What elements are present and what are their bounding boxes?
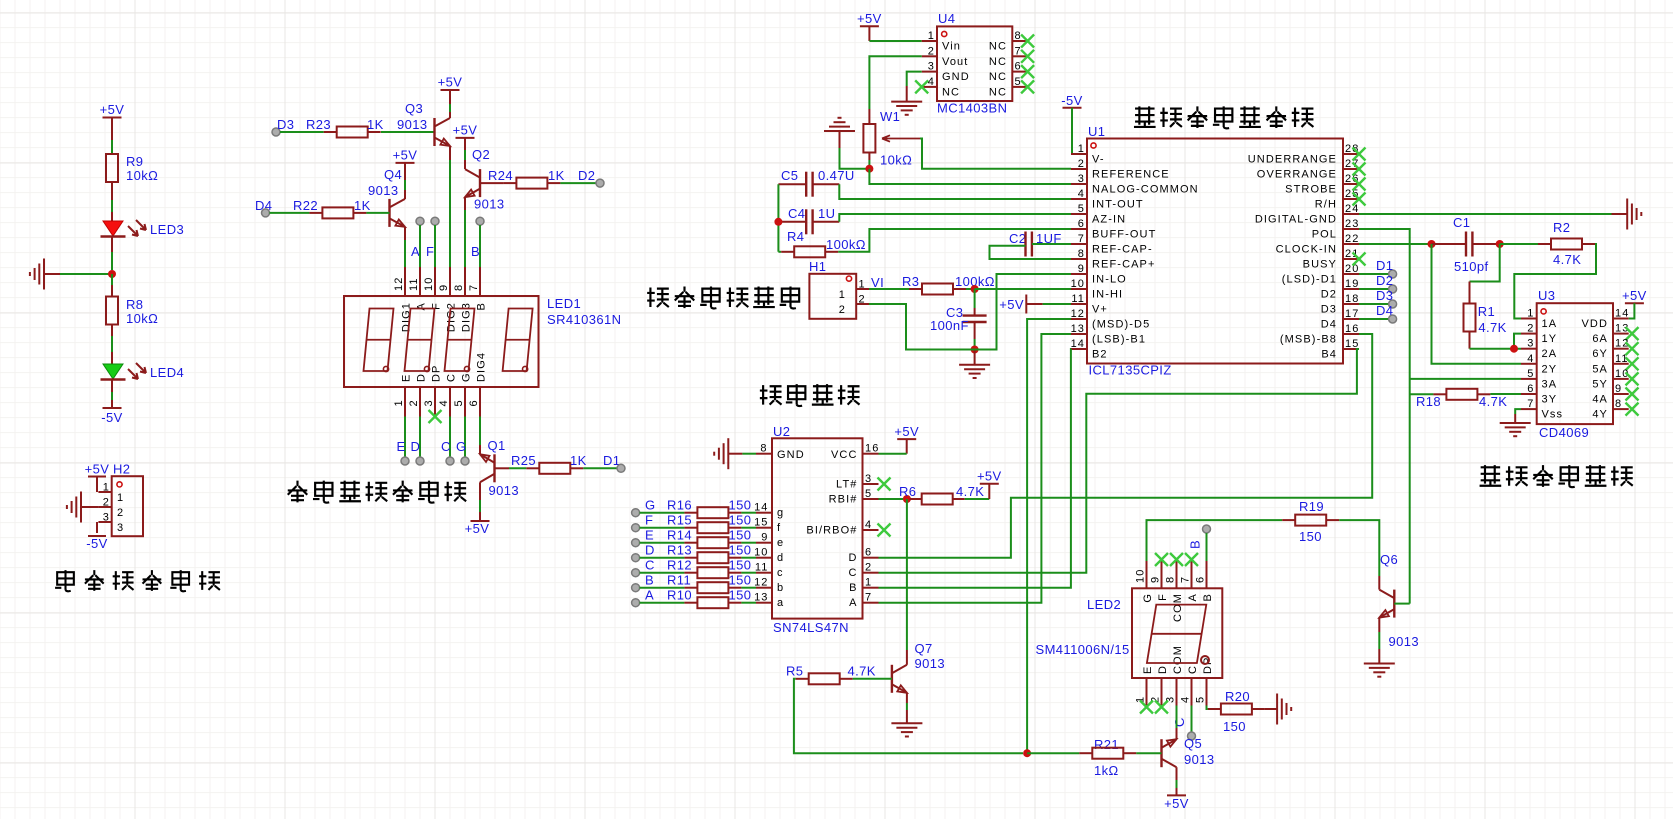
svg-text:NC: NC <box>989 41 1007 53</box>
U3 pin 8 (4Y) <box>1613 408 1629 410</box>
svg-text:9013: 9013 <box>1184 752 1215 767</box>
svg-text:B4: B4 <box>1321 349 1337 361</box>
svg-text:8: 8 <box>1078 248 1085 260</box>
U1 pin 6 (BUFF-OUT) <box>1071 228 1087 230</box>
U1 pin 8 (REF-CAP+) <box>1071 258 1087 260</box>
svg-text:D2: D2 <box>1376 273 1393 288</box>
svg-text:R19: R19 <box>1299 499 1324 514</box>
U4 pin 1 (Vin) <box>922 40 937 42</box>
wire LED1 pin5 G to port <box>464 417 466 458</box>
U2 pin 5 (RBI#) <box>863 498 879 500</box>
svg-text:1: 1 <box>1078 143 1085 155</box>
wire A to R10 <box>640 602 685 604</box>
net port D4 <box>262 209 270 217</box>
svg-text:D4: D4 <box>255 198 272 213</box>
svg-text:150: 150 <box>729 558 752 573</box>
svg-text:4.7K: 4.7K <box>1478 320 1506 335</box>
svg-text:14: 14 <box>1615 308 1629 320</box>
no-connect X on U1 right pin <box>1353 253 1366 266</box>
LED1 pin 11 (A) top <box>419 267 421 296</box>
svg-text:2: 2 <box>928 45 935 57</box>
svg-text:D: D <box>416 373 428 382</box>
wire U3 pin7 Vss to ground <box>1515 409 1521 414</box>
svg-text:23: 23 <box>1345 218 1359 230</box>
svg-text:IN-HI: IN-HI <box>1092 289 1123 301</box>
wire R5 left down to long rail <box>794 679 1023 753</box>
svg-text:F: F <box>645 513 653 528</box>
svg-text:MC1403BN: MC1403BN <box>937 101 1007 116</box>
svg-text:1: 1 <box>1527 308 1534 320</box>
U1 pin 12 ((MSD)-D5) <box>1071 318 1087 320</box>
svg-text:C: C <box>848 567 857 579</box>
net port B <box>476 217 484 225</box>
svg-text:5: 5 <box>1078 203 1085 215</box>
svg-text:6: 6 <box>1527 383 1534 395</box>
svg-text:3: 3 <box>117 522 124 534</box>
no-connect X on U3 pin 11 <box>1626 357 1639 370</box>
svg-text:Q2: Q2 <box>472 147 490 162</box>
no-connect X on U2 LT# <box>878 478 891 491</box>
svg-text:G: G <box>645 498 656 513</box>
LED1 pin 5 (G) bottom <box>464 387 466 417</box>
net port B (decoder input) <box>632 584 640 592</box>
wire H1 pin1 to R3 <box>869 288 909 290</box>
svg-text:100kΩ: 100kΩ <box>826 237 866 252</box>
net port D (decoder input) <box>632 554 640 562</box>
svg-text:G: G <box>456 439 467 454</box>
svg-text:G: G <box>461 372 473 382</box>
U1 pin 20 ((LSD)-D1) <box>1343 273 1359 275</box>
svg-text:W1: W1 <box>880 109 900 124</box>
svg-text:G: G <box>1142 593 1154 603</box>
svg-text:10: 10 <box>754 547 768 559</box>
wire Q5 collector to +5V <box>1176 767 1178 780</box>
svg-text:NALOG-COMMON: NALOG-COMMON <box>1092 184 1199 196</box>
net port D3 (U1 digit outputs) <box>1359 303 1389 305</box>
svg-text:7: 7 <box>1527 398 1534 410</box>
svg-text:A: A <box>849 597 857 609</box>
svg-text:D: D <box>848 552 857 564</box>
wire R10 to U2 <box>741 602 756 604</box>
no-connect X on U1 right pin <box>1353 148 1366 161</box>
svg-text:R6: R6 <box>899 484 916 499</box>
net port D <box>416 457 424 465</box>
svg-text:NC: NC <box>989 71 1007 83</box>
wire +5V to Q4 collector <box>404 163 406 180</box>
wire LED4 to -5V <box>111 380 113 393</box>
section title: shuang-ji-fen-dian-ya-cai-ji (dual-slope voltage acquisition) <box>1134 106 1156 127</box>
svg-text:(LSB)-B1: (LSB)-B1 <box>1092 334 1146 346</box>
svg-text:U4: U4 <box>938 11 955 26</box>
svg-text:-5V: -5V <box>1061 93 1082 108</box>
no-connect X on LED2 pins 1,2 <box>1140 701 1153 714</box>
svg-text:d: d <box>777 552 784 564</box>
svg-text:7: 7 <box>468 284 480 291</box>
svg-text:R20: R20 <box>1225 689 1250 704</box>
wire C2 right to U1 pin7 REF-CAP- <box>1032 243 1071 245</box>
svg-text:12: 12 <box>393 277 405 291</box>
svg-text:2Y: 2Y <box>1542 363 1558 375</box>
svg-text:12: 12 <box>754 577 768 589</box>
svg-text:A: A <box>411 244 420 259</box>
svg-text:B: B <box>471 244 480 259</box>
wire C5 right to U1 pin4 INT-OUT <box>839 184 1071 199</box>
svg-text:4.7K: 4.7K <box>848 664 876 679</box>
wire node to U1 pin3 ANALOG-COMMON <box>869 169 1071 184</box>
svg-text:D: D <box>1157 665 1169 674</box>
wire D3 to R23 <box>280 131 324 133</box>
svg-text:8: 8 <box>1165 576 1177 583</box>
svg-text:5: 5 <box>1015 76 1022 88</box>
svg-text:18: 18 <box>1345 293 1359 305</box>
LED1 digit 4 <box>503 309 533 372</box>
svg-text:V+: V+ <box>1092 304 1108 316</box>
svg-text:10: 10 <box>423 277 435 291</box>
wire C4 right to U1 pin5 AZ-IN <box>839 214 1071 222</box>
svg-text:1: 1 <box>859 279 866 291</box>
wire +5V to U1 pin11 <box>1043 303 1071 305</box>
svg-text:9013: 9013 <box>474 197 505 212</box>
svg-text:9: 9 <box>1078 263 1085 275</box>
svg-text:C1: C1 <box>1453 215 1470 230</box>
svg-text:0.47U: 0.47U <box>818 168 855 183</box>
ground (Q7 emitter) <box>891 722 922 724</box>
svg-text:D2: D2 <box>1321 289 1337 301</box>
svg-text:a: a <box>777 597 784 609</box>
LED1 digit 1 <box>364 309 394 372</box>
LED2 pin 1 (E) bottom <box>1146 678 1148 706</box>
svg-text:150: 150 <box>1223 719 1246 734</box>
net port D3 <box>272 128 280 136</box>
wire -5V to U1 pin1 <box>1071 108 1072 154</box>
net port G (decoder input) <box>632 509 640 517</box>
svg-text:LED3: LED3 <box>150 222 184 237</box>
wire Q2 base to R24 <box>480 182 503 184</box>
svg-text:+5V: +5V <box>1622 288 1647 303</box>
svg-text:3: 3 <box>423 399 435 406</box>
power rail +5V (Q1, inverted) <box>471 520 490 522</box>
svg-text:11: 11 <box>408 277 420 291</box>
svg-text:R8: R8 <box>126 297 143 312</box>
svg-text:LED1: LED1 <box>547 296 581 311</box>
svg-text:DIG4: DIG4 <box>476 352 488 382</box>
U1 pin 9 (IN-LO) <box>1071 273 1087 275</box>
svg-text:1K: 1K <box>548 168 565 183</box>
wire U4 GND to ground <box>907 72 922 86</box>
svg-text:ICL7135CPIZ: ICL7135CPIZ <box>1089 363 1172 378</box>
junction RBI#/R6/Q7 <box>903 495 911 503</box>
wire node to H1 pin2 <box>869 304 975 350</box>
svg-text:+5V: +5V <box>999 297 1024 312</box>
svg-text:5: 5 <box>865 488 872 500</box>
svg-text:6A: 6A <box>1592 333 1608 345</box>
U3 pin 7 (Vss) <box>1521 408 1537 410</box>
wire W1 wiper to U1 pin2 REFERENCE <box>920 139 1071 169</box>
svg-text:4: 4 <box>1078 188 1085 200</box>
U1 pin 26 (STROBE) <box>1343 183 1359 185</box>
svg-text:15: 15 <box>754 517 768 529</box>
svg-text:DIGITAL-GND: DIGITAL-GND <box>1255 214 1337 226</box>
svg-text:5Y: 5Y <box>1592 378 1608 390</box>
svg-text:150: 150 <box>729 498 752 513</box>
svg-text:STROBE: STROBE <box>1285 184 1337 196</box>
LED2 pin 7 (A) top <box>1191 561 1193 588</box>
wire POL branch to U3 pin5 3A <box>1410 378 1521 380</box>
svg-text:7: 7 <box>865 592 872 604</box>
svg-text:2: 2 <box>859 294 866 306</box>
svg-text:GND: GND <box>942 71 970 83</box>
svg-text:(MSD)-D5: (MSD)-D5 <box>1092 319 1150 331</box>
svg-text:COM: COM <box>1172 593 1184 622</box>
svg-text:9013: 9013 <box>1389 634 1420 649</box>
wire POL branch to R18 <box>1410 393 1434 395</box>
svg-text:2: 2 <box>1527 323 1534 335</box>
wire C to R12 <box>640 572 685 574</box>
svg-text:OVERRANGE: OVERRANGE <box>1257 169 1337 181</box>
wire B to LED1 pin7 <box>479 225 481 267</box>
svg-text:9: 9 <box>1150 576 1162 583</box>
svg-text:C: C <box>1187 665 1199 674</box>
wire R6 to +5V <box>965 498 990 500</box>
wire R25 to D1 <box>583 467 617 469</box>
svg-text:F: F <box>426 244 434 259</box>
svg-text:2: 2 <box>1078 158 1085 170</box>
wire R4 right to U1 pin6 BUFF-OUT <box>838 229 1071 252</box>
wire U1 pin23 POL net <box>1359 229 1410 604</box>
svg-text:150: 150 <box>729 513 752 528</box>
net port A <box>416 217 424 225</box>
no-connect X on U3 pin 13 <box>1626 327 1639 340</box>
4-digit 7-seg display LED1 SR410361N <box>344 296 539 387</box>
section title: yi-ma-dian-lu (decoder circuit) <box>760 385 782 404</box>
U1 pin 18 (D3) <box>1343 303 1359 305</box>
svg-text:DIG2: DIG2 <box>446 302 458 332</box>
junction C3 bottom <box>971 346 979 354</box>
H2 pin 3 <box>98 521 111 523</box>
svg-text:R11: R11 <box>667 573 691 588</box>
svg-text:2: 2 <box>839 304 846 316</box>
wire R12 to U2 <box>741 572 756 574</box>
LED2 pin 5 (DP) bottom <box>1206 678 1208 706</box>
wire U1 pin14 B2 to decoder B <box>879 349 1072 588</box>
svg-text:D1: D1 <box>1376 258 1393 273</box>
wire G to R16 <box>640 512 685 514</box>
svg-text:R12: R12 <box>667 558 692 573</box>
svg-text:5: 5 <box>1195 696 1207 703</box>
wire R9 to LED3 <box>111 182 113 200</box>
svg-text:10kΩ: 10kΩ <box>126 168 158 183</box>
svg-text:+5V: +5V <box>438 75 463 90</box>
wire R24 to D2 <box>560 182 599 184</box>
LED2 pin 8 (COM) top <box>1176 561 1178 588</box>
U2 pin 9 (e) <box>756 542 772 544</box>
junction R21 node <box>1023 749 1031 757</box>
svg-text:4A: 4A <box>1592 394 1608 406</box>
svg-text:150: 150 <box>729 543 752 558</box>
ground (left of node) <box>43 259 45 290</box>
svg-text:R/H: R/H <box>1315 199 1337 211</box>
svg-text:Q5: Q5 <box>1184 736 1202 751</box>
LED1 pin 12 (DIG1) top <box>404 267 406 296</box>
svg-text:H1: H1 <box>809 259 826 274</box>
svg-text:R13: R13 <box>667 543 692 558</box>
U3 pin 3 (2A) <box>1521 348 1537 350</box>
U2 pin 14 (g) <box>756 512 772 514</box>
svg-text:1: 1 <box>393 399 405 406</box>
svg-text:8: 8 <box>1015 30 1022 42</box>
resistor R9 10k <box>111 153 113 155</box>
svg-text:C: C <box>645 558 655 573</box>
svg-text:R5: R5 <box>786 664 803 679</box>
svg-text:4.7K: 4.7K <box>956 484 984 499</box>
wire D4 to R22 <box>270 212 310 214</box>
svg-text:B: B <box>849 582 857 594</box>
svg-text:A: A <box>1187 593 1199 601</box>
U1 pin 25 (R/H) <box>1343 198 1359 200</box>
wire node down to C3 <box>974 289 976 308</box>
svg-text:INT-OUT: INT-OUT <box>1092 199 1144 211</box>
junction C4 left <box>774 218 782 226</box>
svg-text:1K: 1K <box>354 198 371 213</box>
U1 pin 27 (OVERRANGE) <box>1343 168 1359 170</box>
wire +5V to R9 <box>111 118 113 141</box>
svg-text:R15: R15 <box>667 513 692 528</box>
no-connect X on U1 right pin <box>1353 178 1366 191</box>
svg-text:C: C <box>446 373 458 382</box>
LED1 pin 8 (DIG3) top <box>464 267 466 296</box>
wire A to LED1 pin11 <box>419 225 421 267</box>
svg-text:C4: C4 <box>788 206 805 221</box>
wire D to R13 <box>640 557 685 559</box>
svg-text:5: 5 <box>453 399 465 406</box>
no-connect X on U1 right pin <box>1353 163 1366 176</box>
svg-text:1kΩ: 1kΩ <box>1094 763 1119 778</box>
U1 pin 10 (IN-HI) <box>1071 288 1087 290</box>
svg-text:1: 1 <box>928 30 935 42</box>
LED1 pin 1 (E) bottom <box>404 387 406 417</box>
wire U1 pin16 MSB-B8 to decoder D <box>879 334 1373 558</box>
svg-text:NC: NC <box>989 56 1007 68</box>
svg-text:F: F <box>1157 593 1169 601</box>
U3 pin 9 (4A) <box>1613 393 1629 395</box>
svg-text:7: 7 <box>1015 45 1022 57</box>
svg-text:150: 150 <box>729 573 752 588</box>
svg-text:B: B <box>1202 593 1214 601</box>
svg-text:1K: 1K <box>570 453 587 468</box>
svg-text:1: 1 <box>865 577 872 589</box>
wire +5V to Q2 collector <box>464 138 466 150</box>
LED1 pin 9 (DIG2) top <box>449 267 451 296</box>
svg-text:B: B <box>476 302 488 310</box>
svg-text:+5V: +5V <box>100 102 125 117</box>
svg-text:2: 2 <box>865 562 872 574</box>
svg-text:1U: 1U <box>818 206 835 221</box>
svg-text:9013: 9013 <box>915 656 946 671</box>
svg-text:RBI#: RBI# <box>829 494 858 506</box>
svg-text:D: D <box>411 439 421 454</box>
svg-text:2A: 2A <box>1542 348 1558 360</box>
H2 pin 1 <box>98 491 111 493</box>
svg-text:U3: U3 <box>1538 288 1555 303</box>
no-connect X on LED2 pins 9,8,7 <box>1155 553 1168 566</box>
svg-text:POL: POL <box>1312 229 1337 241</box>
net port A (decoder input) <box>632 599 640 607</box>
wire R2 right loop to U3 pin1 1A <box>1514 244 1596 319</box>
svg-text:13: 13 <box>754 592 768 604</box>
net port C <box>446 457 454 465</box>
U1 pin 1 (V-) <box>1071 153 1087 155</box>
wire R19 to Q6 collector <box>1339 520 1379 576</box>
LED2 digit <box>1147 605 1206 663</box>
no-connect X on U4 pin 7 <box>1021 50 1034 63</box>
svg-text:(MSB)-B8: (MSB)-B8 <box>1280 334 1337 346</box>
U1 pin 5 (AZ-IN) <box>1071 213 1087 215</box>
LED2 pin 10 (G) top <box>1146 561 1148 588</box>
wire R18 right to U3 pin6 3Y <box>1490 393 1521 395</box>
U2 pin 8 (GND) <box>756 453 772 455</box>
wire U1 pin15 B4 to decoder C <box>879 349 1360 573</box>
wire W1 bottom <box>868 153 870 161</box>
wire Q2 emitter to LED1 pin8 <box>464 197 466 210</box>
svg-text:7: 7 <box>1180 576 1192 583</box>
svg-text:14: 14 <box>754 502 768 514</box>
svg-text:Q4: Q4 <box>384 167 402 182</box>
svg-text:REF-CAP-: REF-CAP- <box>1092 244 1153 256</box>
svg-text:1A: 1A <box>1542 318 1558 330</box>
LED2 pin 9 (F) top <box>1161 561 1163 588</box>
svg-text:9: 9 <box>438 284 450 291</box>
svg-text:12: 12 <box>1071 308 1085 320</box>
junction C1 right <box>1496 240 1504 248</box>
no-connect X on U3 pin 10 <box>1626 372 1639 385</box>
no-connect X on U4 pin 5 <box>1021 80 1034 93</box>
svg-text:R3: R3 <box>902 274 919 289</box>
svg-text:E: E <box>401 374 413 382</box>
svg-text:R1: R1 <box>1478 304 1495 319</box>
net port F (decoder input) <box>632 524 640 532</box>
svg-text:4: 4 <box>928 76 935 88</box>
svg-text:DP: DP <box>431 365 443 382</box>
U1 pin 3 (NALOG-COMMON) <box>1071 183 1087 185</box>
svg-text:V-: V- <box>1092 154 1105 166</box>
U4 pin 4 (NC) <box>922 86 937 88</box>
wire C1 right to R2 <box>1500 243 1538 245</box>
U1 pin 21 (BUSY) <box>1343 258 1359 260</box>
svg-text:SM411006N/15: SM411006N/15 <box>1036 642 1130 657</box>
no-connect X on U4 pin 8 <box>1021 35 1034 48</box>
svg-text:4: 4 <box>1527 353 1534 365</box>
U2 pin 13 (a) <box>756 602 772 604</box>
wire C3 bottom node <box>974 339 976 350</box>
U3 pin 5 (3A) <box>1521 378 1537 380</box>
wire Q1 collector to +5V <box>479 482 481 500</box>
wire node to R8 <box>111 274 113 285</box>
svg-text:B: B <box>1188 540 1203 549</box>
U4 pin 8 (NC) <box>1012 40 1027 42</box>
svg-text:14: 14 <box>1071 338 1085 350</box>
U1 pin 11 (V+) <box>1071 303 1087 305</box>
inverted ground (W1 bottom net) <box>824 130 855 132</box>
svg-text:GND: GND <box>777 449 805 461</box>
U1 pin 7 (REF-CAP-) <box>1071 243 1087 245</box>
svg-text:+5V: +5V <box>85 462 110 477</box>
U3 pin 11 (5A) <box>1613 363 1629 365</box>
no-connect X on U2 BI/RBO# <box>878 524 891 537</box>
U2 pin 6 (D) <box>863 557 879 559</box>
ground (C3) <box>974 350 976 365</box>
svg-text:19: 19 <box>1345 278 1359 290</box>
svg-text:A: A <box>645 588 654 603</box>
